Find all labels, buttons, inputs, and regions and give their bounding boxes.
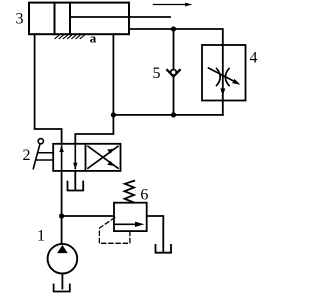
directional valve 2 divider — [85, 144, 87, 171]
svg-text:3: 3 — [16, 11, 24, 28]
svg-text:5: 5 — [153, 65, 161, 82]
lever 2 knob — [38, 139, 43, 144]
cylinder 3 piston — [55, 3, 71, 35]
relief valve 6 pilot line — [99, 218, 129, 244]
cylinder 3 piston rod — [70, 16, 170, 18]
wire: cylinder right port to flow valve top — [129, 29, 223, 45]
lever 2 fork — [36, 153, 53, 160]
directional valve 2 up arrow — [59, 145, 63, 171]
wire: valve to pump junction — [61, 171, 63, 216]
tank relief outlet — [156, 245, 172, 253]
svg-text:6: 6 — [140, 187, 148, 204]
tank under valve — [68, 182, 84, 191]
svg-text:4: 4 — [250, 50, 258, 67]
wire: cylinder right port down and over to valve — [75, 34, 113, 144]
junction node right column — [111, 112, 116, 117]
flow control valve 4 box — [202, 45, 246, 101]
directional valve 2 down arrow — [73, 144, 77, 170]
svg-text:a: a — [90, 31, 97, 46]
flow control valve 4 adjust arrow — [209, 68, 241, 85]
junction node top — [171, 26, 176, 31]
relief valve 6 body — [114, 203, 147, 231]
tank pump suction — [54, 285, 70, 292]
check valve 5 — [167, 70, 180, 77]
cylinder 3 body — [29, 3, 129, 35]
junction node bottom — [171, 112, 176, 117]
svg-text:2: 2 — [23, 147, 31, 164]
cylinder mount hatching — [55, 34, 85, 38]
pump 1 circle — [48, 244, 78, 274]
wire: relief valve outlet — [147, 216, 164, 251]
directional valve 2 body — [53, 144, 120, 171]
relief valve 6 spring — [125, 181, 135, 203]
wire: valve to tank — [74, 171, 76, 189]
wire: check valve branch — [173, 29, 175, 115]
wire: junction to relief valve — [62, 215, 114, 217]
wire: cylinder left port to valve — [35, 34, 62, 144]
wire: pump to tank — [61, 274, 63, 289]
directional valve 2 crossed arrows — [88, 146, 118, 168]
wire: junction to pump — [61, 216, 63, 244]
flow control valve 4 throttle arcs — [217, 69, 229, 86]
wire: flow valve internal line down to bottom rail — [222, 45, 224, 115]
wire: bottom rail — [113, 114, 222, 116]
svg-text:1: 1 — [37, 228, 45, 245]
pump 1 triangle — [57, 245, 68, 253]
flow control valve 4 down arrowhead — [220, 88, 225, 95]
junction node pump — [59, 213, 64, 218]
motion arrow — [154, 3, 193, 7]
relief valve 6 internal arrow — [116, 222, 145, 227]
lever 2 arm — [33, 144, 40, 169]
